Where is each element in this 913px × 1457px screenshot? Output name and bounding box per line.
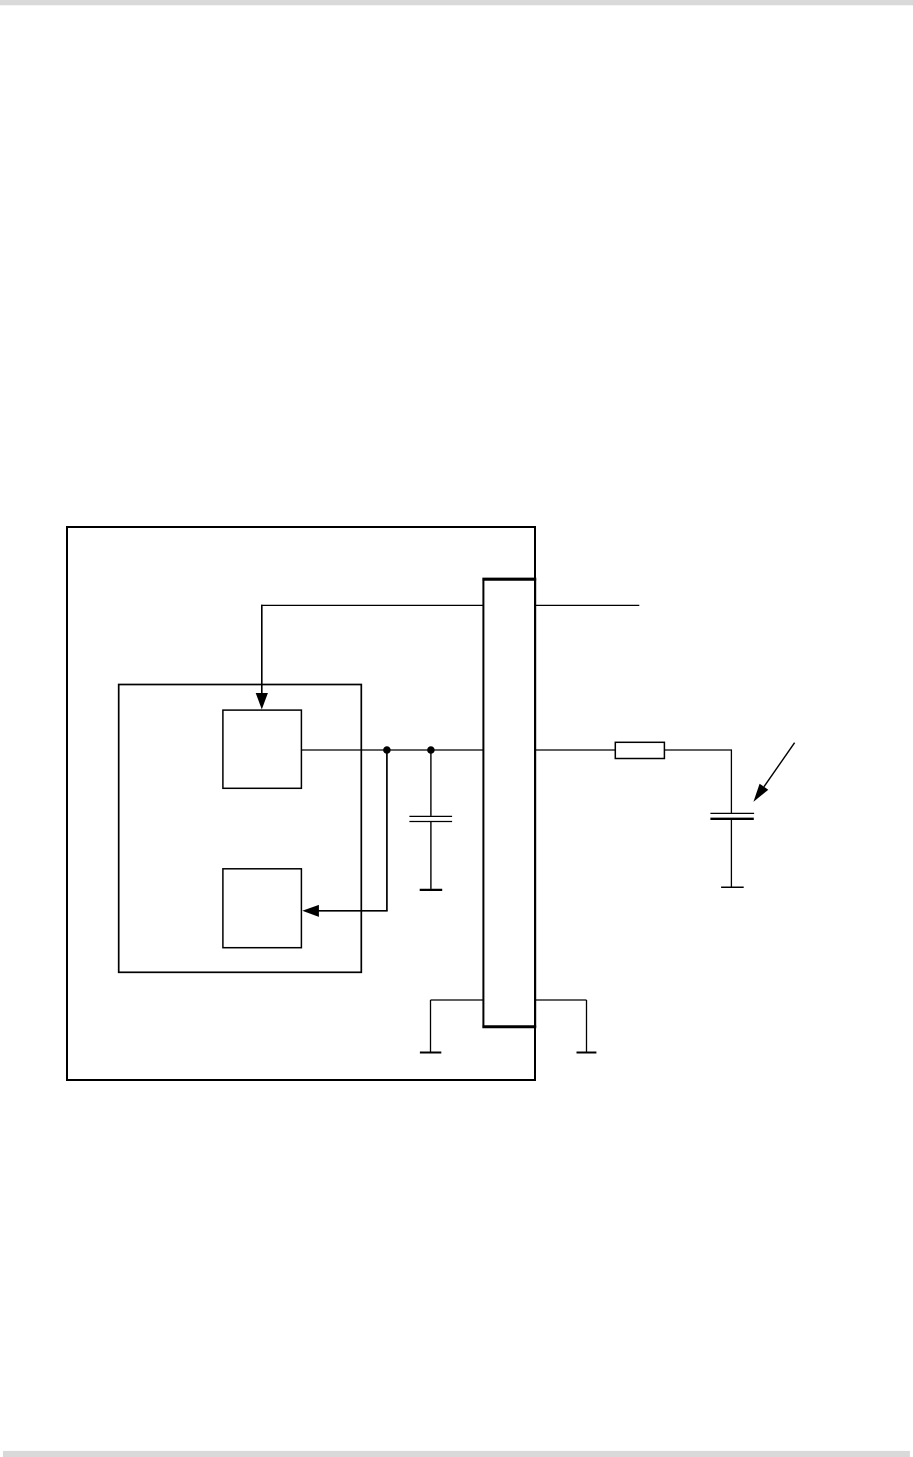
wire vertical into buffer A (261, 605, 263, 697)
capacitor C2 bottom plate (710, 818, 753, 820)
capacitor C1 top plate (409, 815, 452, 817)
wire feedback vertical (386, 750, 388, 911)
node junction 2 (427, 746, 435, 754)
buffer B box (223, 869, 302, 948)
capacitor C1 bottom lead (430, 822, 432, 889)
ground bar left (420, 1052, 441, 1054)
ground leg right (586, 1000, 588, 1052)
node junction 1 (383, 746, 391, 754)
IC outer box (67, 527, 535, 1080)
pin/pad block (tall connector box) (483, 579, 535, 1027)
ground C2 (721, 886, 744, 888)
capacitor C1 top lead (430, 750, 432, 816)
arrowhead into buffer A (256, 693, 268, 709)
callout arrow shaft (764, 743, 795, 787)
header bar (0, 0, 913, 5)
arrowhead into buffer B (302, 905, 319, 917)
footer bar (3, 1451, 910, 1457)
wire top horizontal (clock out) (261, 604, 639, 606)
wire feedback horizontal (317, 910, 388, 912)
ground bar right (577, 1052, 597, 1054)
wire corner to C2 (730, 749, 732, 813)
pad block thick bottom edge (482, 1025, 536, 1028)
wire bottom horizontal (ground net) (431, 999, 587, 1001)
capacitor C2 bottom lead (730, 820, 732, 887)
capacitor C1 bottom plate (409, 821, 452, 823)
callout arrowhead (753, 784, 768, 802)
buffer A box (223, 710, 302, 788)
resistor R1 body (615, 742, 664, 758)
pad block thick top edge (482, 578, 536, 581)
wire middle horizontal (oscillator net) (301, 749, 731, 751)
ground C1 (420, 889, 443, 891)
capacitor C2 top plate (710, 812, 754, 814)
oscillator module box (119, 685, 362, 973)
ground leg left (430, 1000, 432, 1052)
